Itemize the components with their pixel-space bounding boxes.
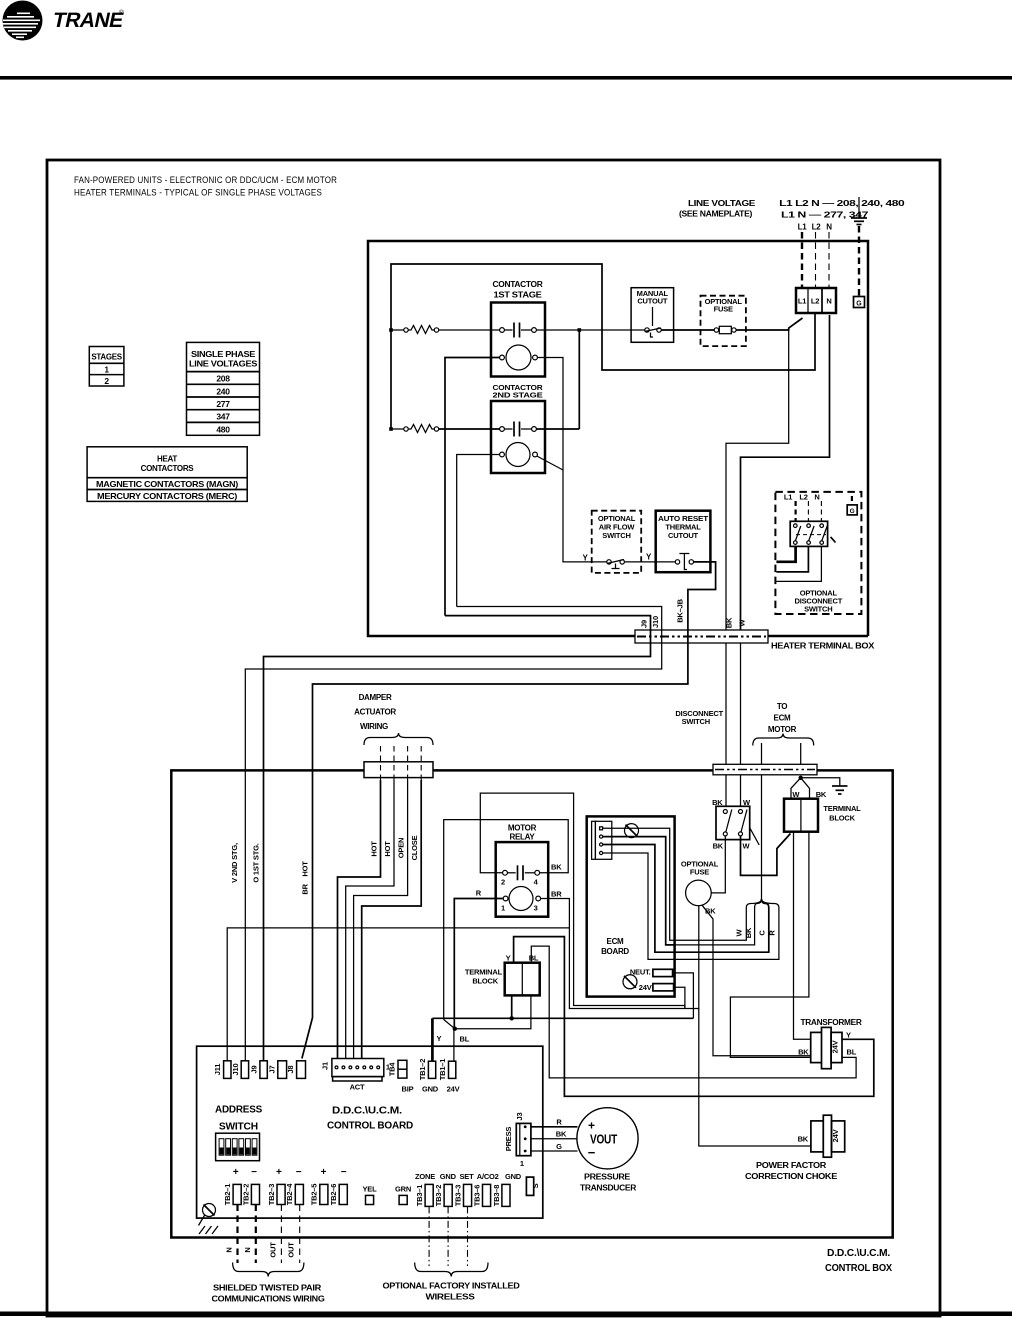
connector TB3-6 xyxy=(472,1184,490,1206)
ecm 24v screw xyxy=(623,975,637,989)
control box caption xyxy=(825,1248,892,1274)
svg-text:D.D.C.\U.C.M.: D.D.C.\U.C.M. xyxy=(827,1248,890,1259)
svg-text:TERMINAL: TERMINAL xyxy=(823,804,861,813)
svg-text:TB3–8: TB3–8 xyxy=(492,1185,501,1207)
svg-text:SINGLE PHASE: SINGLE PHASE xyxy=(191,350,256,359)
ecm board screw xyxy=(625,824,639,838)
disconnect switch caption xyxy=(675,709,723,726)
svg-text:TRANE: TRANE xyxy=(51,9,126,32)
svg-text:SWITCH: SWITCH xyxy=(602,531,630,540)
pressure transducer markings xyxy=(588,1119,618,1161)
coil1 left wire to J9 riser xyxy=(445,358,500,616)
J11 gnd wire to choke xyxy=(227,928,811,1146)
svg-text:TB2–4: TB2–4 xyxy=(285,1183,294,1206)
svg-text:J10: J10 xyxy=(651,616,660,628)
svg-text:+: + xyxy=(276,1167,282,1178)
svg-text:−: − xyxy=(588,1145,596,1160)
address switch caption xyxy=(215,1105,263,1133)
wireless brace xyxy=(415,1263,488,1277)
svg-text:TB3–2: TB3–2 xyxy=(434,1185,443,1207)
resistor R heater 1 xyxy=(389,326,438,334)
svg-text:C: C xyxy=(758,930,767,936)
svg-text:Y: Y xyxy=(437,1034,442,1043)
optional disconnect switch body xyxy=(790,521,835,546)
svg-text:PRESSURE: PRESSURE xyxy=(584,1173,631,1182)
connector J10 xyxy=(231,1061,249,1079)
choke caption xyxy=(745,1161,838,1181)
manual cutout label xyxy=(637,289,669,306)
ecm motor pair junction xyxy=(791,776,840,799)
wire resistor2 to contact2 (thick) xyxy=(439,428,500,430)
svg-text:TB3–3: TB3–3 xyxy=(453,1185,462,1207)
svg-text:PRESS: PRESS xyxy=(504,1127,513,1152)
svg-text:2ND STAGE: 2ND STAGE xyxy=(493,391,543,400)
svg-text:®: ® xyxy=(119,9,124,17)
wireless caption xyxy=(383,1281,520,1302)
svg-text:A/CO2: A/CO2 xyxy=(477,1172,499,1181)
svg-text:FUSE: FUSE xyxy=(690,868,709,877)
svg-text:N: N xyxy=(225,1247,234,1252)
ecm pin2 wire xyxy=(603,837,675,945)
svg-text:MOTOR: MOTOR xyxy=(768,725,797,734)
connector J11 xyxy=(213,1061,231,1079)
optional fuse dashed box xyxy=(701,296,746,346)
J3 wire labels xyxy=(556,1118,567,1152)
svg-text:347: 347 xyxy=(216,412,230,422)
svg-text:V 2ND STG,: V 2ND STG, xyxy=(230,843,239,883)
TB1-2 riser thick xyxy=(431,1018,434,1061)
svg-text:LINE VOLTAGES: LINE VOLTAGES xyxy=(189,360,258,369)
connector TB3-2 xyxy=(434,1184,452,1206)
damper wire HOT 1 to J1 xyxy=(338,780,381,1059)
zone labels row xyxy=(415,1172,522,1181)
transformer BL wire xyxy=(531,946,856,1078)
connector TB1-2 xyxy=(418,1059,439,1094)
svg-text:TB2–3: TB2–3 xyxy=(267,1184,276,1206)
svg-text:SWITCH: SWITCH xyxy=(804,605,832,614)
L1 L2 N terminal block xyxy=(796,288,836,313)
wire manual cutout to fuse xyxy=(661,329,714,331)
Trane logo circle xyxy=(2,1,43,41)
damper wire CLOSE to J1 xyxy=(362,780,422,1059)
ground symbol ecm xyxy=(832,786,848,794)
svg-text:CONTACTORS: CONTACTORS xyxy=(141,464,195,473)
motor relay caption xyxy=(508,824,537,842)
svg-text:BL: BL xyxy=(460,1035,470,1044)
svg-text:TB2–6: TB2–6 xyxy=(329,1184,338,1206)
G box xyxy=(854,297,865,308)
svg-text:L2: L2 xyxy=(812,223,822,232)
svg-text:2: 2 xyxy=(104,376,109,386)
svg-text:ACT: ACT xyxy=(350,1083,365,1092)
svg-text:L1: L1 xyxy=(798,297,806,306)
svg-text:CONTACTOR: CONTACTOR xyxy=(493,280,544,289)
disconnect switch body xyxy=(716,806,759,845)
L2 dashed drop xyxy=(815,232,817,288)
svg-text:BIP: BIP xyxy=(402,1085,414,1094)
damper wire CLOSE dashed xyxy=(420,746,422,780)
to ecm motor labels xyxy=(768,702,797,734)
optional fuse circle label xyxy=(681,860,719,877)
svg-text:HOT: HOT xyxy=(370,841,379,857)
svg-text:G: G xyxy=(850,508,855,515)
wire TB BK cell down then left xyxy=(730,832,810,1058)
svg-text:480: 480 xyxy=(216,424,230,434)
TB1-1 riser xyxy=(453,1029,455,1062)
wireless dash-dot drops xyxy=(429,1206,467,1266)
connector J9 xyxy=(250,1061,268,1079)
svg-text:TB1–1: TB1–1 xyxy=(438,1059,447,1081)
contactor 2nd stage contact xyxy=(500,422,537,437)
damper wire HOT 2 dashed xyxy=(393,746,395,780)
svg-text:W: W xyxy=(792,790,800,799)
connector J7 xyxy=(268,1061,287,1079)
GRN pad xyxy=(395,1185,411,1205)
svg-text:MOTOR: MOTOR xyxy=(508,824,537,833)
svg-text:POWER FACTOR: POWER FACTOR xyxy=(756,1161,827,1170)
J3 wire R xyxy=(531,1126,578,1128)
ecm terminal block xyxy=(784,799,818,832)
svg-text:J10: J10 xyxy=(231,1064,240,1076)
thermal cutout contacts xyxy=(675,554,693,570)
connector TB2-4 xyxy=(285,1183,303,1206)
connector J1 ACT xyxy=(321,1059,390,1092)
NEUT wire to GND line xyxy=(673,973,694,1018)
fuse bottom wire to transformer xyxy=(702,905,811,1055)
svg-text:1ST STAGE: 1ST STAGE xyxy=(494,291,543,300)
ecm motor pair wire right xyxy=(800,743,802,764)
optional air flow switch label xyxy=(598,514,636,540)
transformer symbol xyxy=(811,1027,842,1068)
shielded pair wire labels xyxy=(225,1242,296,1258)
wire airflow to thermal cutout xyxy=(624,561,675,563)
coil1 right wire down to airflow switch xyxy=(537,358,606,562)
J3 connector xyxy=(504,1113,531,1168)
connector J8 xyxy=(286,1061,306,1079)
damper actuator terminal bar xyxy=(364,762,433,778)
manual cutout switch xyxy=(645,307,662,337)
optional disconnect pole exit wires xyxy=(776,546,821,581)
24V wire down xyxy=(674,987,685,1008)
BK wire heater band to control band xyxy=(725,643,727,764)
svg-text:L2: L2 xyxy=(799,493,807,502)
svg-text:1: 1 xyxy=(501,904,505,913)
connector TB2-3 xyxy=(267,1184,285,1206)
pressure transducer caption xyxy=(580,1173,637,1193)
svg-text:GND: GND xyxy=(440,1172,457,1181)
top rule xyxy=(0,76,1012,80)
svg-text:TRANSDUCER: TRANSDUCER xyxy=(580,1184,637,1193)
svg-text:J9: J9 xyxy=(250,1066,259,1074)
J3 wire BK xyxy=(531,1138,577,1140)
svg-text:BK: BK xyxy=(744,927,753,938)
damper wire OPEN to J1 xyxy=(354,780,408,1059)
connector TB3-8 xyxy=(492,1184,510,1206)
wire fuse to L1 terminal xyxy=(736,318,802,330)
svg-text:TB3–1: TB3–1 xyxy=(415,1185,424,1207)
auto reset thermal cutout label xyxy=(658,514,709,540)
line voltage labels xyxy=(679,199,905,232)
transformer Y wire xyxy=(514,937,874,1097)
svg-text:TB2–2: TB2–2 xyxy=(241,1184,250,1206)
svg-text:CUTOUT: CUTOUT xyxy=(668,531,699,540)
svg-text:(SEE NAMEPLATE): (SEE NAMEPLATE) xyxy=(679,210,753,219)
svg-text:ACTUATOR: ACTUATOR xyxy=(354,708,396,717)
svg-text:BK: BK xyxy=(713,842,724,851)
svg-text:+: + xyxy=(588,1119,595,1133)
svg-text:YEL: YEL xyxy=(363,1185,378,1194)
svg-text:BLOCK: BLOCK xyxy=(829,814,855,823)
relay BR wire to J11 xyxy=(541,899,570,928)
svg-text:BK: BK xyxy=(798,1048,809,1057)
svg-text:BK: BK xyxy=(556,1130,567,1139)
damper wire HOT 2 to J1 xyxy=(346,780,394,1059)
chassis ground symbol xyxy=(199,1226,218,1234)
optional fuse circle xyxy=(686,880,712,906)
svg-text:BK: BK xyxy=(551,863,562,872)
svg-text:24V: 24V xyxy=(831,1129,840,1142)
ecm pin4 wire xyxy=(603,853,675,959)
ecm motor bundle fanout xyxy=(675,775,779,960)
svg-text:240: 240 xyxy=(216,386,230,396)
connector TB2-1 xyxy=(223,1184,241,1206)
svg-text:TB2–1: TB2–1 xyxy=(223,1184,232,1206)
svg-text:TB3–6: TB3–6 xyxy=(472,1185,481,1207)
svg-text:DAMPER: DAMPER xyxy=(359,693,392,702)
heat contactors table xyxy=(87,447,247,502)
svg-text:N: N xyxy=(826,223,832,232)
optional disconnect switch dashed box xyxy=(775,492,861,614)
svg-text:OPTIONAL FACTORY INSTALLED: OPTIONAL FACTORY INSTALLED xyxy=(383,1281,520,1291)
svg-text:BK: BK xyxy=(725,617,734,628)
W wire heater band to control band xyxy=(740,643,742,764)
stages table xyxy=(89,347,124,387)
pressure transducer circle xyxy=(577,1108,638,1169)
svg-text:GND: GND xyxy=(505,1172,522,1181)
svg-text:CUTOUT: CUTOUT xyxy=(637,297,668,306)
svg-text:FUSE: FUSE xyxy=(714,305,733,314)
svg-text:G: G xyxy=(556,1142,562,1151)
svg-text:−: − xyxy=(341,1167,347,1178)
svg-text:GND: GND xyxy=(422,1085,439,1094)
bottom rule xyxy=(0,1312,1012,1317)
to ecm motor brace xyxy=(753,734,814,746)
svg-text:1: 1 xyxy=(520,1159,524,1168)
svg-text:L1: L1 xyxy=(798,223,808,232)
contactor 2nd stage labels xyxy=(493,383,544,400)
svg-text:24V: 24V xyxy=(639,983,652,992)
svg-text:HEAT: HEAT xyxy=(157,455,177,464)
board ground screw xyxy=(199,1204,216,1226)
plus minus labels TB2 xyxy=(233,1167,347,1178)
svg-text:24V: 24V xyxy=(831,1040,840,1053)
svg-text:J11: J11 xyxy=(213,1064,222,1076)
control box boundary band (dash-dot) xyxy=(713,764,817,775)
BK-JB wire from thermal cutout xyxy=(302,562,716,1059)
svg-text:GRN: GRN xyxy=(395,1185,411,1194)
svg-text:D.D.C.\U.C.M.: D.D.C.\U.C.M. xyxy=(332,1106,402,1117)
svg-text:HEATER TERMINAL BOX: HEATER TERMINAL BOX xyxy=(771,642,875,651)
svg-text:J7: J7 xyxy=(268,1066,277,1074)
svg-text:L1 L2 N — 208, 240, 480: L1 L2 N — 208, 240, 480 xyxy=(779,199,905,208)
24V junction diagonal xyxy=(444,1020,455,1029)
svg-text:W: W xyxy=(735,928,744,936)
L2 feed loop wire xyxy=(391,264,815,429)
svg-text:L2: L2 xyxy=(811,297,819,306)
svg-text:R: R xyxy=(556,1118,562,1127)
optional disconnect G box xyxy=(847,505,857,515)
svg-text:TERMINAL: TERMINAL xyxy=(465,968,503,977)
svg-text:TRANSFORMER: TRANSFORMER xyxy=(801,1018,863,1027)
svg-text:R: R xyxy=(476,889,482,898)
manual cutout box xyxy=(631,288,674,343)
contactor 1st stage labels xyxy=(493,280,544,300)
svg-text:HOT: HOT xyxy=(383,841,392,857)
motor relay coil xyxy=(501,887,541,913)
heater box boundary band (dash-dot) xyxy=(635,630,768,643)
shielded pair caption xyxy=(212,1283,326,1304)
svg-text:LINE VOLTAGE: LINE VOLTAGE xyxy=(688,199,756,208)
junction node contact2 output riser xyxy=(536,328,581,429)
svg-text:G: G xyxy=(856,301,862,308)
auto reset thermal cutout box xyxy=(656,511,711,573)
N dashed drop xyxy=(828,232,830,288)
contactor 1st stage contact xyxy=(500,323,537,338)
svg-text:J1: J1 xyxy=(321,1062,330,1070)
motor TB left cell gnd stub xyxy=(511,995,513,1018)
svg-text:+: + xyxy=(321,1167,327,1178)
svg-text:MERCURY CONTACTORS (MERC): MERCURY CONTACTORS (MERC) xyxy=(97,491,237,501)
svg-text:TB2–5: TB2–5 xyxy=(310,1184,319,1206)
ecm board connector xyxy=(592,821,612,859)
relay pin4 BK wire xyxy=(444,820,569,1020)
connector S xyxy=(526,1177,540,1195)
svg-text:J3: J3 xyxy=(515,1113,524,1121)
svg-text:O 1ST STG.: O 1ST STG. xyxy=(252,843,261,882)
connector TB2-6 xyxy=(329,1184,347,1206)
damper wire HOT 1 dashed xyxy=(380,746,382,780)
svg-text:CONTROL BOX: CONTROL BOX xyxy=(825,1263,892,1274)
svg-text:J8: J8 xyxy=(286,1066,295,1074)
svg-text:COMMUNICATIONS WIRING: COMMUNICATIONS WIRING xyxy=(212,1294,326,1304)
main frame xyxy=(47,160,940,1316)
svg-text:TB1–2: TB1–2 xyxy=(418,1059,427,1081)
J9 return wire xyxy=(264,616,651,1061)
svg-text:SHIELDED TWISTED PAIR: SHIELDED TWISTED PAIR xyxy=(213,1283,321,1293)
motor TB caption xyxy=(465,968,503,986)
svg-text:BK–JB: BK–JB xyxy=(676,598,685,622)
L1 dashed drop xyxy=(801,232,803,288)
damper actuator brace xyxy=(364,733,433,745)
svg-text:Y: Y xyxy=(506,954,511,963)
ecm pin1 wire xyxy=(603,828,675,940)
gnd line neut to tb1-2 xyxy=(432,1017,693,1019)
Trane wordmark xyxy=(51,9,126,32)
coil2 left wire to J10 riser xyxy=(457,455,500,607)
damper actuator labels xyxy=(354,693,396,731)
J10 return wire xyxy=(245,607,661,1061)
resistor R heater 2 xyxy=(389,425,438,433)
wire TB W cell down to transformer xyxy=(794,832,811,1040)
wire resistor1 to contact1 xyxy=(439,329,500,331)
svg-text:208: 208 xyxy=(216,374,230,384)
N W feed wire down xyxy=(741,315,830,630)
optional disconnect dashed drops xyxy=(796,496,852,521)
svg-text:24V: 24V xyxy=(447,1085,460,1094)
contactor 1st stage coil xyxy=(500,345,538,370)
svg-text:−: − xyxy=(251,1167,257,1178)
ecm motor bundle wire left xyxy=(761,743,763,764)
svg-text:OPEN: OPEN xyxy=(397,838,406,858)
svg-text:WIRELESS: WIRELESS xyxy=(426,1292,476,1302)
svg-text:N: N xyxy=(826,297,831,306)
shielded pair brace xyxy=(233,1263,304,1277)
relay pin2 loop wire xyxy=(480,793,685,1008)
svg-text:Y: Y xyxy=(846,1031,851,1040)
connector TB2-2 xyxy=(241,1184,259,1206)
svg-text:ECM: ECM xyxy=(607,937,625,946)
svg-text:SET: SET xyxy=(460,1172,475,1181)
fuse symbol xyxy=(714,326,736,333)
shielded pair dashed drops xyxy=(238,1205,300,1264)
svg-text:ADDRESS: ADDRESS xyxy=(215,1105,263,1116)
ecm NEUT connector xyxy=(630,968,673,977)
J3 wire G xyxy=(531,1150,578,1152)
wire disconnect BK to fuse xyxy=(711,836,725,893)
connector TB2-5 xyxy=(310,1184,328,1206)
svg-text:OUT: OUT xyxy=(268,1242,277,1258)
svg-text:ZONE: ZONE xyxy=(415,1172,435,1181)
svg-text:MAGNETIC CONTACTORS (MAGN): MAGNETIC CONTACTORS (MAGN) xyxy=(96,479,238,489)
single phase line voltages table xyxy=(187,342,260,435)
relay R wire xyxy=(454,899,503,1029)
svg-text:+: + xyxy=(233,1167,239,1178)
svg-text:RELAY: RELAY xyxy=(510,833,536,842)
svg-text:FAN-POWERED UNITS - ELECTRONIC: FAN-POWERED UNITS - ELECTRONIC OR DDC/UC… xyxy=(74,175,337,186)
YEL pad xyxy=(363,1185,378,1205)
motor relay box xyxy=(496,842,549,917)
svg-text:ECM: ECM xyxy=(774,714,792,723)
control board caption xyxy=(327,1106,413,1132)
svg-text:BL: BL xyxy=(529,954,539,963)
svg-text:W: W xyxy=(743,842,751,851)
svg-text:CORRECTION CHOKE: CORRECTION CHOKE xyxy=(745,1172,838,1181)
W wire band to disconnect switch xyxy=(740,775,742,807)
junction dot 24V xyxy=(453,1027,457,1031)
svg-text:BLOCK: BLOCK xyxy=(472,977,498,986)
wire disconnect W to terminal block xyxy=(741,834,791,876)
optional air flow switch dashed box xyxy=(592,511,642,573)
connector TB3-1 xyxy=(415,1184,433,1206)
svg-text:W: W xyxy=(738,618,747,626)
connector TB1-1 xyxy=(438,1059,460,1094)
ecm board box xyxy=(587,816,675,996)
svg-text:BK: BK xyxy=(816,790,827,799)
fuse bottom drop xyxy=(698,905,700,1008)
contactor 2nd stage box xyxy=(491,401,545,473)
svg-text:L1: L1 xyxy=(784,493,792,502)
svg-text:TO: TO xyxy=(777,702,787,711)
coil2 right pointer diagonal xyxy=(537,456,563,470)
ecm board label xyxy=(601,937,629,956)
svg-text:TB4: TB4 xyxy=(388,1062,397,1077)
svg-text:CLOSE: CLOSE xyxy=(410,835,419,860)
optional disconnect L1 L2 N labels xyxy=(784,493,820,502)
terminal block caption right xyxy=(823,804,861,823)
svg-text:OUT: OUT xyxy=(287,1242,296,1258)
ground dashed drop to G box xyxy=(858,226,860,297)
svg-text:N: N xyxy=(814,493,819,502)
